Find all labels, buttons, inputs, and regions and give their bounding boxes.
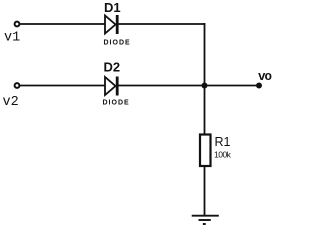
ground xyxy=(192,216,219,224)
svg-text:D1: D1 xyxy=(104,0,121,15)
svg-text:vo: vo xyxy=(258,70,272,84)
svg-text:v1: v1 xyxy=(4,31,20,46)
terminal v1 xyxy=(15,22,20,27)
terminal v2 xyxy=(15,83,20,88)
wire D2 cathode through junction to vo xyxy=(119,85,259,87)
terminal vo xyxy=(257,83,262,88)
svg-text:DIODE: DIODE xyxy=(103,99,130,106)
wire v2 to D2 anode xyxy=(20,85,106,87)
wire R1 to ground xyxy=(204,166,206,216)
resistor R1 xyxy=(200,135,211,167)
wire D1 cathode to top-right corner xyxy=(119,23,206,25)
junction node xyxy=(202,83,208,89)
svg-text:D2: D2 xyxy=(104,59,121,74)
wire vertical from corner to resistor R1 xyxy=(204,23,206,135)
svg-text:DIODE: DIODE xyxy=(104,40,131,47)
svg-text:v2: v2 xyxy=(3,95,19,110)
svg-text:100k: 100k xyxy=(214,150,232,160)
svg-text:R1: R1 xyxy=(215,135,231,149)
diode D2 xyxy=(105,77,117,96)
wire v1 to D1 anode xyxy=(20,23,106,25)
diode D1 xyxy=(105,15,117,34)
